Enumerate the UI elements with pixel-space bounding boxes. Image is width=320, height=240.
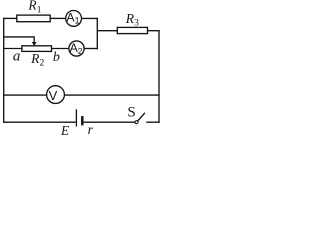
voltmeter V [47,86,65,104]
wire voltmeter branch left [3,94,47,96]
wire R3 branch [97,30,117,32]
wire R2 to A2 [52,48,69,50]
wire switch to right rail [146,121,159,123]
svg-text:R3: R3 [125,11,139,29]
resistor R1 [17,15,50,22]
svg-text:E: E [60,123,69,137]
svg-text:r: r [88,122,94,137]
resistor R3 [117,27,147,33]
svg-text:V: V [49,88,58,103]
wire R1 to A1 [50,17,66,19]
wire wiper branch [3,36,34,38]
wire battery to switch [84,121,135,123]
wire vertical junction [96,18,98,50]
ammeter A2 [69,41,84,56]
wire top branch left [3,17,17,19]
wire right rail [158,30,160,123]
switch S pivot [135,121,138,124]
svg-text:b: b [53,50,60,65]
battery E long plate [75,109,77,126]
wire R3 to right rail [148,30,160,32]
wire A1 to junction [82,17,98,19]
ammeter A1 [66,11,82,27]
wiper arrow [33,36,35,42]
svg-text:a: a [13,49,21,65]
svg-text:S: S [127,105,135,121]
wire A2 to junction [84,48,98,50]
rheostat R2 [22,46,52,52]
wire R2 branch left [3,48,22,50]
switch S lever [138,113,145,121]
battery E short plate [81,116,84,125]
svg-text:R2: R2 [30,51,44,69]
wire V to right rail [64,94,159,96]
wire bottom rail left [3,121,76,123]
wire left rail [3,18,5,123]
svg-text:R1: R1 [27,0,41,16]
